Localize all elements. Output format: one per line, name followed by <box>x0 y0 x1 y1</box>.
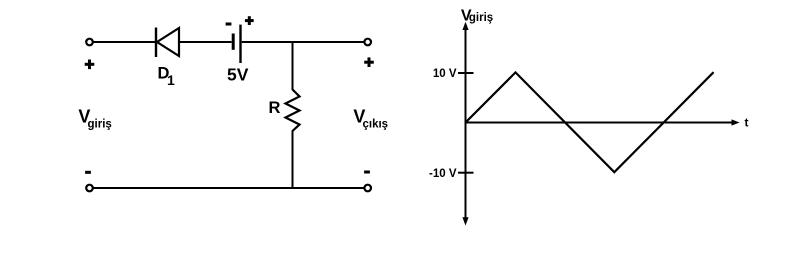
tick: -10V <box>458 172 474 174</box>
node: top-right output terminal <box>364 39 371 46</box>
label: Vgiris input <box>78 106 111 130</box>
wire: input terminal to diode <box>93 41 155 43</box>
label: battery minus <box>226 23 232 26</box>
waveform: input triangle wave <box>466 72 714 172</box>
svg-text:giriş: giriş <box>469 12 493 24</box>
wire: battery to output terminal <box>242 41 364 43</box>
node: bottom-left terminal <box>86 185 93 192</box>
graph vertical axis V <box>462 22 468 226</box>
svg-text:10 V: 10 V <box>433 68 457 80</box>
label: + polarity at output top <box>364 57 374 67</box>
svg-text:t: t <box>745 115 749 129</box>
wire: resistor to bottom rail <box>292 131 294 190</box>
svg-text:R: R <box>269 99 281 117</box>
diode D1 <box>156 28 179 58</box>
node: top-left input terminal <box>86 39 93 46</box>
resistor R <box>286 90 300 132</box>
label: graph Vgiris <box>461 7 493 24</box>
svg-text:çıkış: çıkış <box>363 118 389 130</box>
wire: junction down to resistor <box>292 41 294 90</box>
wire: diode to battery <box>180 41 232 43</box>
graph horizontal axis t <box>466 119 740 125</box>
svg-text:1: 1 <box>167 72 175 88</box>
label: - polarity at input bottom <box>85 171 91 174</box>
label: battery plus <box>245 16 254 25</box>
tick: +10V <box>458 72 474 74</box>
label: - polarity at output bottom <box>364 171 370 174</box>
label: + polarity at input top <box>85 60 95 70</box>
svg-text:giriş: giriş <box>88 118 112 130</box>
svg-text:5V: 5V <box>227 64 249 84</box>
label: Vcikis output <box>353 106 388 130</box>
svg-text:-10 V: -10 V <box>429 168 457 180</box>
wire: bottom rail <box>93 187 364 189</box>
battery 5V <box>233 25 240 63</box>
node: bottom-right terminal <box>364 185 371 192</box>
